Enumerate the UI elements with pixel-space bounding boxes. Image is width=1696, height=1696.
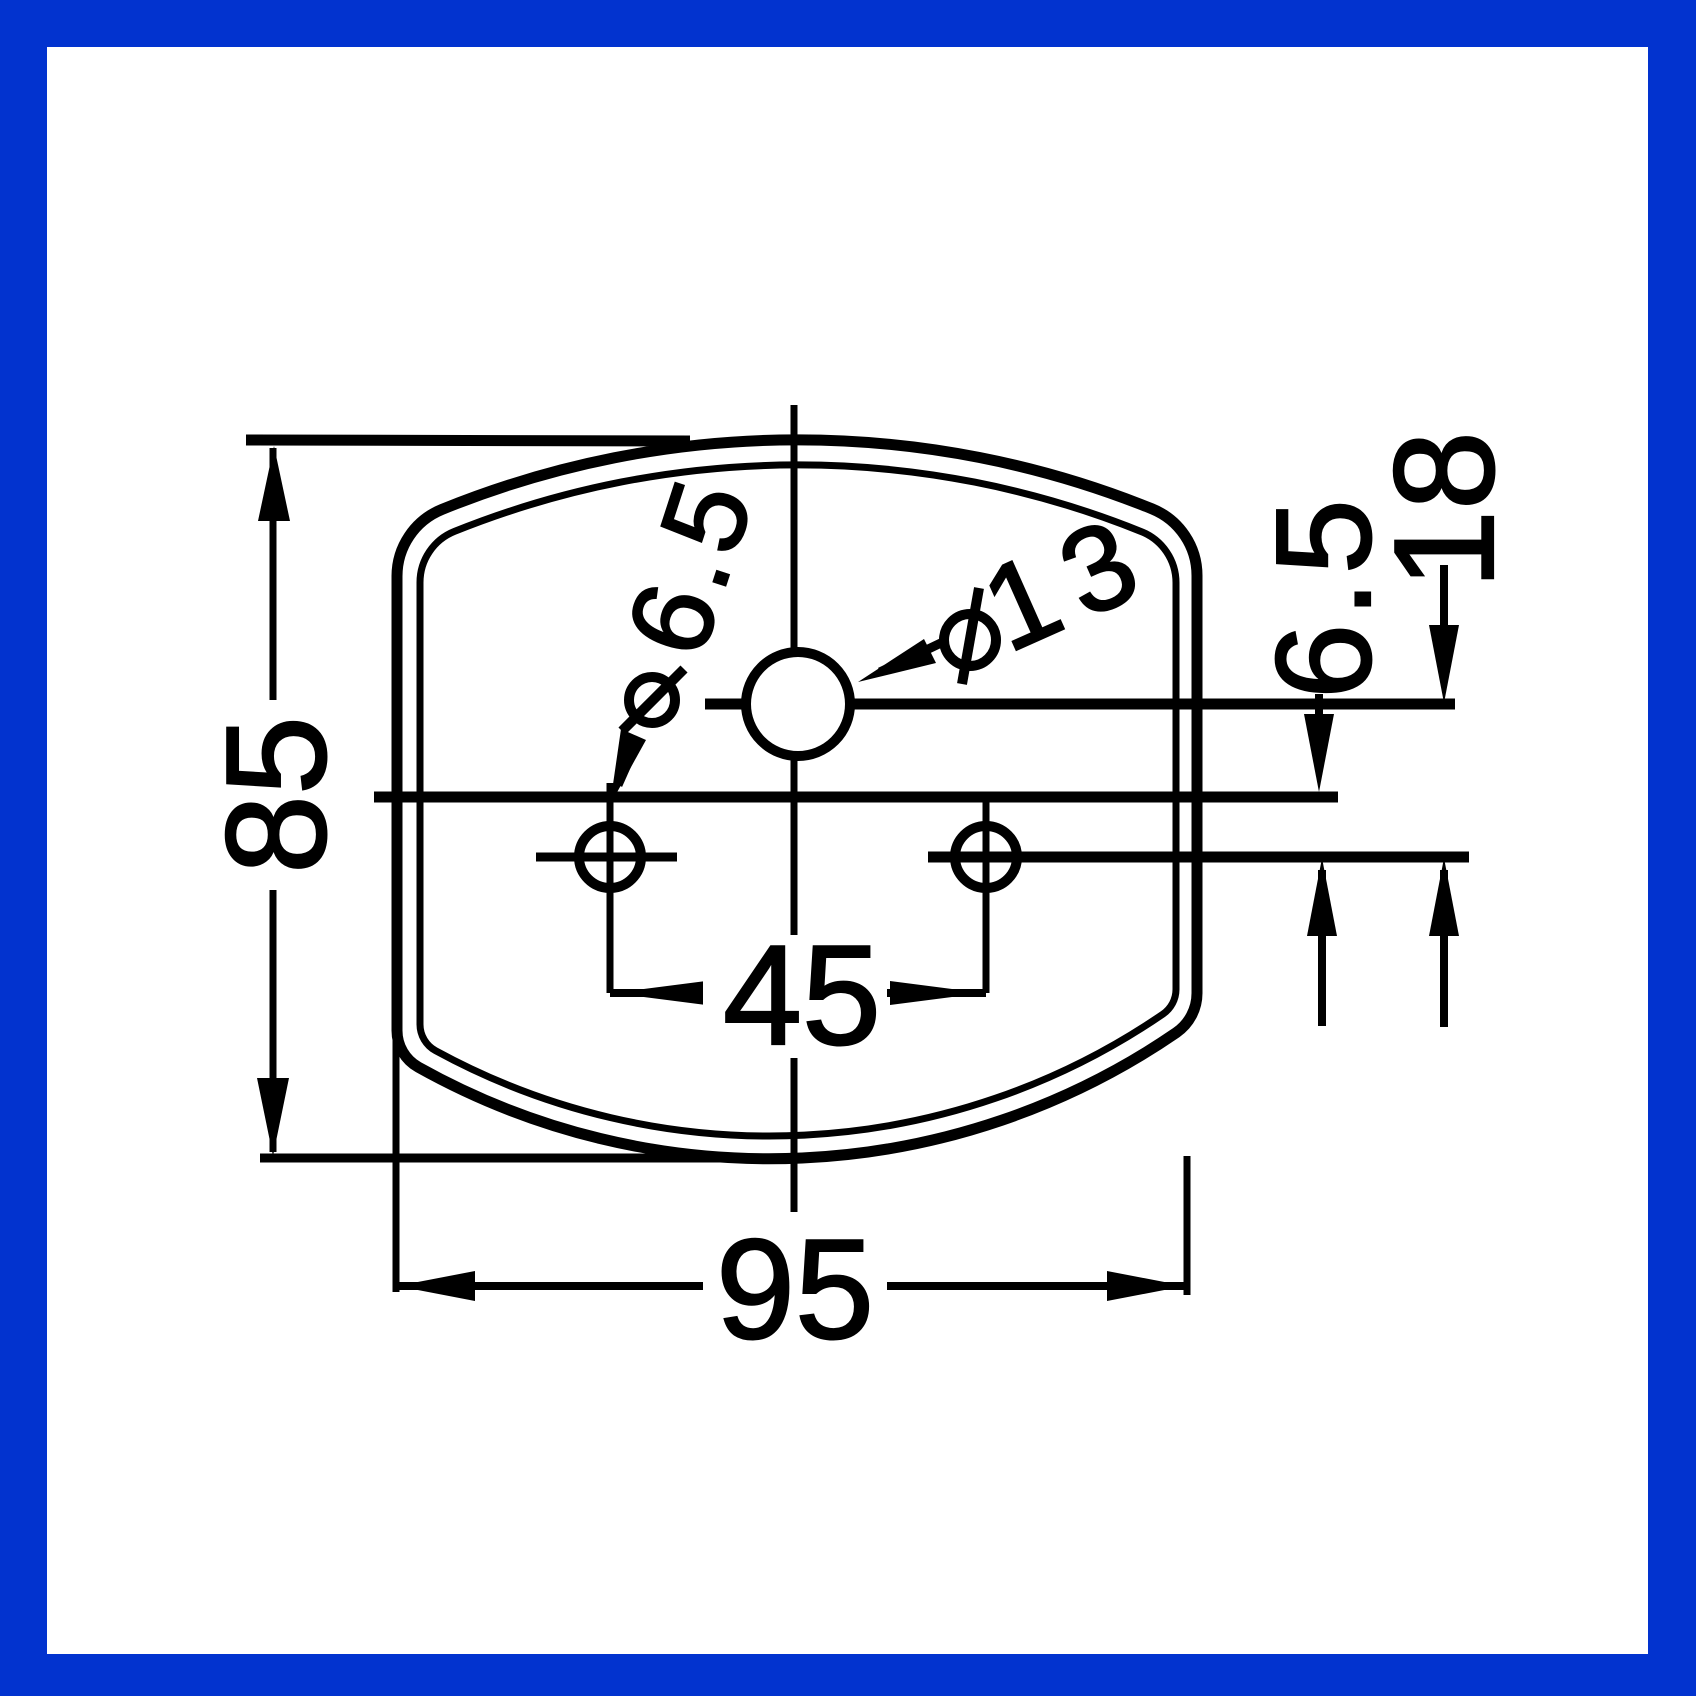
extension line 95 left [393,1030,400,1292]
part outline inner [420,465,1176,1136]
svg-text:95: 95 [716,1210,874,1369]
arrowhead 18 down [1429,625,1459,703]
dimension 6.5 upper arrow shaft [1315,694,1323,770]
horizontal centerline of hole ø13 [705,699,1455,710]
text gap masks [205,700,887,1350]
svg-text:85: 85 [197,716,356,874]
arrowhead 18 up [1429,858,1459,936]
centerline of right hole ø6.5 extended right [928,852,1469,863]
svg-text:18: 18 [1365,431,1524,589]
extension line 95 right [1184,1156,1191,1295]
leader line ø13 [880,642,943,672]
diameter symbol of ø6.5 label [622,669,684,731]
bottom extension line (tangent to part bottom) [260,1154,788,1163]
dimension line 95 [397,1282,1185,1290]
leader line ø6.5 [618,740,638,785]
hole ø13 [746,652,850,756]
right hole ø6.5 [955,826,1017,888]
centerline of left hole ø6.5 [536,853,677,862]
dimension line 85 [270,448,277,1152]
vertical centerline [791,405,798,1212]
left hole ø6.5 [579,826,641,888]
arrowhead 95 right [1107,1271,1185,1301]
arrowhead 6.5 up [1307,858,1337,936]
arrowhead 45 left [613,981,706,1005]
dimension 18 lower arrow shaft [1440,870,1448,1027]
dimension line 45 [610,989,986,997]
leader arrowhead ø13 [858,639,936,682]
dimension 6.5 lower arrow shaft [1318,870,1326,1026]
dimension 18 upper arrow shaft [1440,565,1448,680]
arrowhead 85 bottom [257,1078,289,1156]
reference line 6.5 below ø13 [374,792,1338,803]
arrowhead 6.5 down [1304,714,1334,792]
leader arrowhead ø6.5 [610,729,646,805]
right hole vertical centerline [983,797,990,993]
svg-text:45: 45 [723,916,881,1075]
diameter symbol of ø13 label [944,588,996,684]
arrowhead 85 top [258,446,290,521]
left hole vertical centerline [607,783,614,993]
arrowhead 45 right [890,981,983,1005]
arrowhead 95 left [397,1271,475,1301]
top extension line (tangent to part top) [246,440,690,441]
part outline outer [397,440,1197,1159]
